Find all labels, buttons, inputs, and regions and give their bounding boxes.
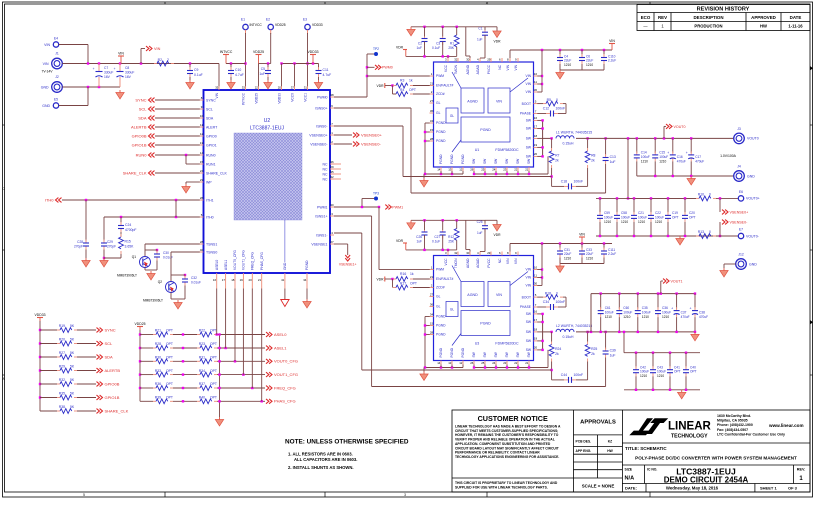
svg-text:NOTE: UNLESS OTHERWISE SPECIFI: NOTE: UNLESS OTHERWISE SPECIFIED [285,439,409,446]
U3 pin 15 PGND [430,325,434,327]
junction [306,62,308,64]
svg-text:5K: 5K [70,338,75,342]
ground C11 [314,80,322,89]
U1 pin 6 NC [501,58,503,62]
connector J12 [736,259,747,270]
U2 pin 38 PWM0 [330,96,334,98]
svg-text:www.linear.com: www.linear.com [768,423,804,428]
junction [119,62,121,64]
wire [413,287,430,289]
svg-text:BOOT: BOOT [522,102,531,106]
U3 pin 24 SW [495,361,497,365]
svg-text:29: 29 [330,165,334,169]
net label SDA [97,355,103,360]
junction [541,119,543,121]
wire [184,286,186,300]
svg-text:C5: C5 [261,67,265,71]
wire SCL [155,108,200,110]
svg-text:INTVCC: INTVCC [220,50,233,54]
wire [587,362,589,380]
junction [590,331,592,333]
svg-text:SDA: SDA [206,116,214,120]
svg-text:SW: SW [472,158,476,164]
junction [39,383,41,385]
wire [506,365,508,368]
svg-text:SW: SW [526,127,532,131]
wire [173,400,197,402]
junction [484,366,486,368]
capacitor C34 [546,304,558,310]
svg-text:330uF: 330uF [125,71,134,75]
svg-text:DATE: DATE [790,15,802,20]
wire TSNS1 [145,243,200,245]
junction [675,292,677,294]
capacitor C22 [648,212,654,222]
svg-text:C26: C26 [416,235,422,239]
svg-text:SYNC: SYNC [105,327,116,332]
op-amp U2 LTC3887-1EUJ body [204,90,331,273]
U1 pin 36 GL [430,112,434,114]
junction [185,154,187,156]
svg-text:INTVCC: INTVCC [250,23,263,27]
net label SHARE_CLK [149,171,155,176]
svg-text:VOUT0-: VOUT0- [746,234,760,238]
U1 pin 1 PWM [430,75,434,77]
svg-text:PCB DES.: PCB DES. [576,439,592,443]
svg-text:GPIO0B: GPIO0B [105,381,120,386]
svg-text:21: 21 [525,167,529,171]
svg-text:FREQ_CFG: FREQ_CFG [274,385,296,390]
svg-text:R28: R28 [155,342,161,346]
connector J4 [734,171,745,182]
wire [120,254,122,258]
U3 pin 20 SW [534,349,538,351]
wire [676,294,678,309]
svg-text:30: 30 [534,88,538,92]
junction [528,366,530,368]
wire [563,103,566,105]
junction [581,242,583,244]
svg-text:2k: 2k [591,352,595,356]
svg-text:APPROVALS: APPROVALS [580,420,616,426]
svg-text:GPIO1: GPIO1 [206,143,217,147]
wire [723,264,725,268]
svg-text:PGND: PGND [305,260,309,270]
svg-text:J4: J4 [737,165,741,169]
wire [226,63,246,65]
capacitor C110 [601,54,607,64]
wire [669,376,671,390]
junction [616,197,618,199]
junction [599,197,601,199]
junction [694,292,696,294]
svg-text:R1: R1 [450,42,454,46]
svg-text:ZCD#: ZCD# [436,286,445,290]
wire [173,387,197,389]
svg-text:16: 16 [534,116,538,120]
svg-text:R40: R40 [199,396,205,400]
svg-text:1210: 1210 [605,315,612,319]
ground input caps ch0 [556,70,564,79]
wire [217,374,265,376]
ground input [116,90,124,99]
svg-text:VSENSE0+: VSENSE0+ [309,133,327,137]
capacitor C17 [686,151,694,162]
U2 pin 34 PGND [306,273,308,289]
wire [245,33,247,86]
svg-text:100uF: 100uF [604,215,613,219]
wire caps gnd rail [560,263,604,265]
svg-text:VDR: VDR [494,40,502,44]
wire [456,47,458,57]
connector E1 [243,24,248,29]
wire [145,249,157,251]
U3 pin 17 SW [534,321,538,323]
U3 pin 21 SW [528,361,530,365]
junction [87,86,89,88]
svg-text:5K: 5K [70,324,75,328]
svg-text:11: 11 [534,80,537,84]
junction [517,173,519,175]
wire [281,64,283,87]
svg-text:OPT: OPT [689,215,696,219]
svg-text:FREQ_CFG: FREQ_CFG [251,252,255,270]
svg-text:PGND: PGND [436,121,446,125]
svg-text:E6: E6 [739,190,743,194]
wire [451,365,453,368]
wire [103,217,105,241]
junction [541,268,543,270]
net label RUN0 [149,153,155,158]
wire [217,347,265,349]
svg-text:4.7uF: 4.7uF [235,73,244,77]
svg-text:1210: 1210 [564,256,571,260]
junction [652,389,654,391]
svg-text:SW: SW [526,320,532,324]
junction [484,173,486,175]
junction [103,257,105,259]
resistor R33 [153,372,173,377]
svg-text:ASEL0: ASEL0 [274,332,287,337]
junction [541,146,543,148]
wire VIN top pin [509,50,511,58]
svg-text:J1: J1 [55,52,59,56]
junction [140,62,142,64]
svg-text:4: 4 [486,1,488,5]
svg-text:1uF: 1uF [259,72,265,76]
resistor R39 [153,399,173,404]
svg-text:VDD25: VDD25 [135,322,146,326]
svg-text:1uF: 1uF [610,160,616,164]
wire [40,356,57,358]
svg-text:32: 32 [454,58,458,62]
junction [650,235,652,237]
wire [517,365,519,368]
svg-text:SW: SW [526,330,532,334]
wire [484,171,486,174]
svg-text:1210: 1210 [586,256,593,260]
U3 pin 26 SW [473,361,475,365]
wire [140,347,153,349]
svg-text:LINEAR: LINEAR [668,421,712,433]
svg-text:E3: E3 [303,18,307,22]
ground U2 PGND [303,299,311,308]
svg-text:THIS CIRCUIT IS PROPRIETARY TO: THIS CIRCUIT IS PROPRIETARY TO LINEAR TE… [455,481,558,485]
wire [294,64,296,87]
U3 pin 18 SW [534,331,538,333]
wire [425,325,430,327]
wire [424,27,426,37]
junction [242,373,244,375]
wire [173,334,197,336]
svg-text:NC: NC [322,162,328,166]
wire [442,235,444,250]
svg-text:21: 21 [430,81,434,85]
svg-text:Milpitas, CA 95035: Milpitas, CA 95035 [717,419,748,423]
svg-text:ALERTB: ALERTB [131,124,147,129]
junction [261,400,263,402]
svg-text:RUN0: RUN0 [136,152,148,157]
U2 pin 14 RUN0 [200,154,204,156]
wire to VCC pin [447,250,449,252]
capacitor C2 [422,37,428,46]
svg-text:17: 17 [222,278,226,282]
wire ASEL1 riser [225,289,227,349]
svg-text:13: 13 [448,167,452,171]
wire [170,293,172,300]
svg-text:LTC Confidential-For Customer: LTC Confidential-For Customer Use Only [717,432,785,436]
svg-text:VCC1: VCC1 [303,93,307,102]
svg-text:+: + [671,307,673,311]
junction [541,321,543,323]
svg-text:VIN: VIN [526,90,532,94]
capacitor C42 [633,366,639,376]
capacitor C41 [667,366,673,376]
wire TSNS0 [171,251,200,253]
svg-text:VIN: VIN [506,64,510,70]
wire VDD33 rail [39,321,41,411]
wire [724,263,736,265]
junction [669,352,671,354]
capacitor C30 [154,251,160,261]
svg-text:SW: SW [527,158,531,164]
svg-text:PHASE: PHASE [520,305,532,309]
svg-text:OPT: OPT [210,356,217,360]
wire [547,156,549,174]
wire ISNS1+ riser [371,216,373,387]
svg-text:23: 23 [200,178,204,182]
wire GPIO1B [155,144,200,146]
junction [690,175,692,177]
junction [182,400,184,402]
wire [173,347,197,349]
svg-text:2k: 2k [555,159,559,163]
wire [465,220,467,249]
svg-text:1uF: 1uF [610,354,616,358]
junction [423,26,425,28]
U1 pin 10 VIN [534,75,538,77]
svg-text:J3: J3 [737,127,741,131]
U1 pin 19 SW [534,146,538,148]
wire [425,122,430,124]
wire VIN right riser [541,244,543,286]
svg-text:35: 35 [330,170,334,174]
capacitor C38 [690,307,698,318]
wire SHARE_CLK [155,172,200,174]
wire [576,379,588,381]
U1 pin 25 SW [484,167,486,171]
wire [605,332,607,349]
wire [411,26,485,28]
svg-text:U2: U2 [264,118,271,124]
svg-text:GPIO1B: GPIO1B [105,395,120,400]
svg-text:REV.: REV. [797,468,806,472]
wire [664,125,666,127]
junction [636,137,638,139]
wire [510,243,612,245]
svg-text:2. INSTALL SHUNTS AS SHOWN.: 2. INSTALL SHUNTS AS SHOWN. [288,465,354,470]
svg-text:0.1uF: 0.1uF [432,46,440,50]
capacitor C5 [265,67,271,77]
ground output ch1 [691,332,699,341]
U1 pin 30 AGND [469,58,471,62]
svg-text:20: 20 [534,152,538,156]
junction [218,360,220,362]
svg-text:ITH0: ITH0 [45,197,54,202]
wire [219,335,221,418]
wire [442,42,444,57]
svg-text:36: 36 [430,302,434,306]
wire [77,397,96,399]
ground output ch0 [687,176,695,185]
svg-text:0: 0 [556,98,558,102]
svg-text:OPT: OPT [210,382,217,386]
svg-text:5K: 5K [70,378,75,382]
svg-text:SW: SW [494,158,498,164]
svg-text:ALL CAPACITORS ARE IN 0603.: ALL CAPACITORS ARE IN 0603. [294,457,357,462]
svg-text:Q1: Q1 [132,255,136,259]
wire [156,261,158,269]
svg-text:29: 29 [487,251,491,255]
svg-text:28: 28 [200,240,204,244]
wire [484,220,486,223]
junction [541,340,543,342]
wire [559,50,561,56]
ground stage ch0 [420,178,428,187]
wire [469,250,471,252]
svg-text:+: + [667,151,669,155]
junction [618,292,620,294]
wire VIN top pin [509,244,511,252]
wire VSENSE0+ [334,134,352,136]
power flag VIN input [118,56,124,60]
wire [636,138,638,153]
svg-text:1k: 1k [409,79,413,83]
svg-text:+: + [93,67,95,71]
junction [424,333,426,335]
wire FREQ_CFG riser [251,289,253,389]
net label SCL [97,341,103,346]
revision history table [637,5,810,31]
U1 pin 24 SW [495,167,497,171]
svg-text:VDR: VDR [396,239,404,243]
U2 NC stub 36 [330,163,341,165]
wire [424,235,426,250]
U3 pin 10 VIN [534,269,538,271]
svg-text:1210: 1210 [621,220,628,224]
svg-text:FDMF5820DC: FDMF5820DC [495,148,519,152]
connector J1 [52,58,63,69]
wire [40,397,57,399]
svg-text:SCALE = NONE: SCALE = NONE [582,484,615,489]
wire caps gnd rail [560,69,604,71]
svg-text:VIN: VIN [43,62,49,66]
junction [616,235,618,237]
svg-text:PGND: PGND [439,347,443,357]
wire [456,240,458,250]
capacitor C24 [118,222,124,232]
wire [85,200,87,241]
junction [182,387,184,389]
wire [596,197,696,199]
wire [627,138,629,198]
U2 pin 33 INTVCC [245,86,247,90]
junction [218,400,220,402]
svg-text:1k: 1k [410,272,414,276]
U2 pin 8 SYNC [200,99,204,101]
svg-text:+: + [114,67,116,71]
junction [657,292,659,294]
capacitor C21 [631,212,637,222]
ground C28 [82,258,90,267]
wire [558,113,566,115]
capacitor C29 [101,240,107,250]
capacitor C39 [603,348,609,358]
junction [312,62,314,64]
svg-text:1uF: 1uF [417,240,423,244]
wire [218,64,220,87]
svg-text:R15: R15 [125,240,131,244]
wire TP3 riser [361,199,363,208]
svg-text:C61: C61 [605,306,611,310]
svg-text:1210: 1210 [586,63,593,67]
wire [40,370,57,372]
wire [103,250,105,259]
svg-text:22: 22 [255,86,259,90]
svg-text:VIN: VIN [526,268,532,272]
svg-text:SW: SW [483,158,487,164]
wire [484,27,486,30]
power flag VDD33 [310,55,316,59]
svg-text:R34: R34 [199,369,205,373]
svg-text:23: 23 [503,361,507,365]
svg-text:10: 10 [534,265,538,269]
ground J12 [720,268,728,277]
U1 pin 27 GL [430,102,434,104]
U3 pin 23 SW [506,361,508,365]
U3 pin 12 PGND [462,361,464,365]
wire [618,294,620,309]
junction [528,173,530,175]
wire [425,334,430,336]
svg-text:34: 34 [430,119,434,123]
wire [576,137,733,139]
U2 pin 40 TSNS0 [200,251,204,253]
wire SYNC [155,99,200,101]
wire [413,93,430,95]
svg-text:VOUT0: VOUT0 [674,125,686,129]
wire [474,173,548,175]
